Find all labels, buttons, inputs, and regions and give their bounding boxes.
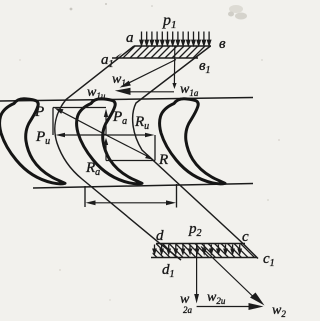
- top strip bottom edge a1-b1: [112, 57, 198, 59]
- cascade exit line (bottom horizontal): [33, 184, 253, 189]
- bottom strip bottom edge d1-c1: [151, 257, 257, 259]
- Pu vector: [56, 133, 107, 138]
- w1 vector: [120, 60, 177, 88]
- w2 vector: [201, 247, 265, 306]
- force polygon: P rectangle: [53, 108, 106, 136]
- w1a vertical arrow (through p1 centre): [172, 46, 176, 89]
- top strip hatching: [116, 46, 219, 58]
- bottom strip top edge d-c: [156, 243, 245, 245]
- distributed load arrows p1 (above top strip): [140, 32, 211, 46]
- top strip edges: a-b top edge: [134, 45, 211, 47]
- cascade front line (top horizontal): [0, 98, 253, 102]
- svg-text:в: в: [219, 36, 226, 52]
- distributed load arrows p2 (inside bottom strip): [153, 245, 241, 254]
- svg-text:R: R: [158, 152, 168, 168]
- pitch dimension ticks: [84, 186, 86, 207]
- w2u horizontal arrow: [197, 303, 264, 310]
- P vector: [55, 108, 106, 135]
- Ru vector: [106, 133, 155, 138]
- R rectangle: [106, 135, 155, 161]
- Pa vector: [104, 109, 108, 135]
- blade 2: [77, 99, 142, 184]
- R vector: [106, 135, 154, 160]
- w1u horizontal arrow: [115, 88, 174, 95]
- w2a vertical arrow: [194, 244, 199, 304]
- svg-text:c: c: [242, 229, 249, 245]
- svg-text:d: d: [156, 228, 164, 244]
- pitch dimension line with arrows: [86, 200, 177, 205]
- scan noise blotches: [19, 3, 280, 301]
- Ra vector: [104, 138, 108, 161]
- svg-text:a: a: [126, 30, 134, 46]
- streamline 2: b -> b1 -> curve -> c -> c1: [133, 46, 258, 259]
- streamline 1: a -> a1 -> curve through passage -> d -> d1: [55, 46, 181, 260]
- blade 3: [160, 99, 225, 184]
- svg-text:P: P: [34, 104, 44, 120]
- bottom strip hatching: [143, 244, 255, 258]
- blade 1: [0, 99, 65, 184]
